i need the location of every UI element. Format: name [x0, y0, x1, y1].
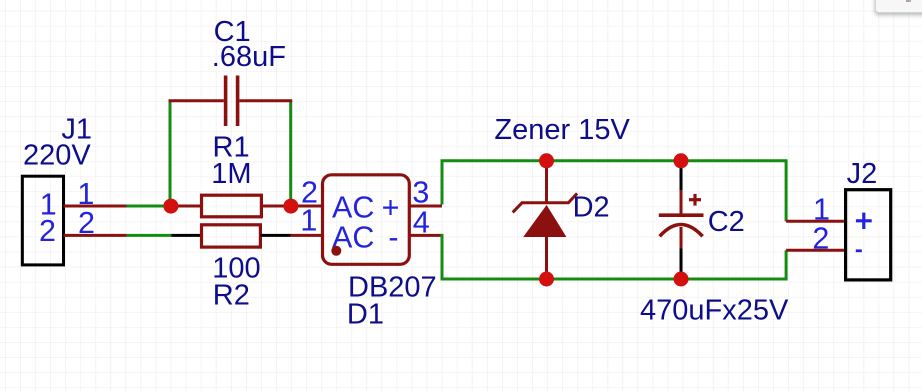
wire D1 pin3 dark red — [409, 205, 442, 208]
wire J1 pin2 dark red — [64, 234, 127, 237]
bridge rectifier D1 DB207 — [300, 175, 436, 331]
connector J1 — [22, 114, 92, 265]
svg-text:+: + — [382, 190, 400, 224]
wire top rail green — [441, 159, 787, 162]
svg-text:C2: C2 — [708, 206, 745, 238]
svg-text:220V: 220V — [23, 140, 91, 172]
capacitor C2 — [640, 161, 789, 327]
svg-text:J2: J2 — [847, 158, 878, 190]
wire D1 pin4 dark red — [409, 234, 442, 237]
wire J1 pin1 dark red — [64, 205, 127, 208]
resistor R1 — [171, 132, 323, 217]
svg-text:R2: R2 — [213, 279, 250, 311]
svg-text:1: 1 — [300, 204, 317, 238]
node B junction dot — [283, 199, 298, 214]
wire C1 right vertical green — [289, 101, 292, 206]
wire C1 left vertical green — [169, 101, 172, 206]
wire J2 pin1 riser green — [785, 159, 788, 221]
wire pin3 riser green — [441, 161, 444, 205]
connector J2 — [846, 158, 891, 280]
node A junction dot — [163, 199, 178, 214]
svg-text:3: 3 — [412, 175, 429, 209]
svg-text:D1: D1 — [347, 299, 384, 331]
resistor R2 — [202, 225, 323, 311]
wire J1 pin2 black — [172, 234, 202, 237]
svg-text:2: 2 — [78, 206, 95, 240]
wire J2 pin2 dark red — [786, 249, 846, 252]
wire J1 pin1 green — [127, 205, 171, 208]
junction dot C2 bottom — [674, 272, 689, 287]
wire pin4 dropper green — [441, 234, 444, 279]
icon fragment on panel — [906, 0, 909, 2]
svg-text:1M: 1M — [211, 158, 251, 190]
svg-text:D2: D2 — [573, 191, 610, 223]
capacitor C1 — [169, 16, 293, 126]
wire J1 pin2 green — [127, 234, 172, 237]
svg-text:470uFx25V: 470uFx25V — [640, 294, 789, 326]
floating toolbar panel fragment (top-right) — [876, 0, 922, 13]
svg-text:.68uF: .68uF — [212, 41, 286, 73]
svg-text:2: 2 — [39, 214, 56, 248]
svg-text:2: 2 — [812, 222, 829, 256]
junction dot zener top — [539, 153, 554, 168]
zener diode D2 — [494, 114, 630, 279]
wire J2 pin2 dropper green — [785, 250, 788, 280]
svg-text:Zener 15V: Zener 15V — [494, 114, 630, 146]
svg-text:AC: AC — [332, 190, 374, 224]
wire J2 pin1 dark red — [786, 220, 846, 223]
junction dot zener bottom — [539, 272, 554, 287]
svg-text:-: - — [388, 221, 398, 255]
wire bottom rail green — [441, 278, 787, 281]
junction dot C2 top — [674, 153, 689, 168]
